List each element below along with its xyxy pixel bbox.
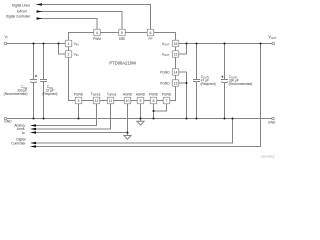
- svg-text:1: 1: [68, 42, 70, 46]
- svg-text:16: 16: [174, 42, 178, 46]
- svg-text:6: 6: [150, 31, 152, 35]
- wire pin12 TSENSE to controller: [36, 104, 97, 126]
- capacitor CIN2 330uF electrolytic: [33, 44, 35, 80]
- svg-text:to/from: to/from: [17, 9, 28, 13]
- arrowhead FF left: [36, 3, 42, 6]
- capacitor COUT2 330uF electrolytic: [224, 44, 226, 80]
- svg-text:(Required): (Required): [42, 92, 57, 96]
- svg-text:(Recommended): (Recommended): [4, 92, 28, 96]
- pin 15 VOUT: [172, 51, 179, 58]
- svg-text:8: 8: [153, 99, 155, 103]
- svg-text:to: to: [22, 131, 25, 135]
- node: Analog lines to digital controller labels: [11, 124, 26, 146]
- svg-text:AGND: AGND: [123, 93, 133, 97]
- ground AGND symbol under pin9: [137, 121, 144, 125]
- arrowhead PWM right: [37, 17, 43, 20]
- junction dot AGND line: [126, 131, 128, 133]
- svg-text:PTD08A210W: PTD08A210W: [109, 61, 136, 66]
- svg-text:Digital Lines: Digital Lines: [12, 3, 30, 7]
- terminal VI input: [4, 42, 7, 45]
- junction dot pin13 link: [185, 82, 187, 84]
- wire pin11 ISENSE to controller: [36, 104, 111, 129]
- wire pin10 AGND to controller: [36, 104, 128, 133]
- pin 8 PGND: [150, 97, 157, 104]
- pin 11 ISENSE: [107, 97, 114, 104]
- wire pin8 to GND bus: [153, 104, 155, 119]
- arrowhead AGND line: [30, 131, 36, 134]
- svg-text:(Recommended): (Recommended): [229, 82, 253, 86]
- wire pin9 AGND to bus: [140, 104, 142, 122]
- svg-text:9: 9: [140, 99, 142, 103]
- junction dot pin8 link: [152, 110, 154, 112]
- svg-text:3: 3: [78, 99, 80, 103]
- svg-text:PGND: PGND: [149, 93, 159, 97]
- wire VIN branch to pin 2: [59, 44, 66, 55]
- svg-text:(Required): (Required): [201, 82, 216, 86]
- wire pin15 to VOUT rail: [179, 44, 187, 55]
- svg-text:7: 7: [166, 99, 168, 103]
- pin 14 PGND: [172, 69, 179, 76]
- wire PWM line from controller: [37, 19, 98, 30]
- terminal GND right: [272, 117, 275, 120]
- pin 9 AGND: [137, 97, 144, 104]
- pin 7 PGND: [163, 97, 170, 104]
- svg-text:PGND: PGND: [74, 93, 84, 97]
- arrowhead SRE right: [37, 10, 43, 13]
- wire pin3 to GND bus: [78, 104, 80, 119]
- pin 2 VIN: [65, 51, 72, 58]
- terminal VOUT: [272, 42, 275, 45]
- pin 10 AGND: [124, 97, 131, 104]
- wire VIN rail: [7, 43, 65, 45]
- arrowhead GND sense: [30, 142, 36, 145]
- junction dots VOUT rail: [185, 42, 187, 44]
- wire GND bus: [7, 118, 272, 120]
- svg-text:PWM: PWM: [93, 37, 101, 41]
- svg-text:10: 10: [126, 99, 130, 103]
- wire pin14 pin13 to GND bus: [179, 72, 187, 119]
- pin 16 VOUT: [172, 40, 179, 47]
- svg-text:2: 2: [68, 52, 70, 56]
- junction dots GND bus: [32, 117, 34, 119]
- pin 3 PGND: [75, 97, 82, 104]
- terminal GND left: [4, 117, 7, 120]
- svg-text:15: 15: [174, 52, 178, 56]
- svg-text:AGND: AGND: [136, 93, 146, 97]
- wire FF line to controller: [37, 5, 151, 30]
- arrowhead TSENSE: [30, 124, 36, 127]
- svg-text:SRE: SRE: [119, 37, 126, 41]
- capacitor COUT1 47uF: [196, 44, 198, 80]
- pin 12 TSENSE: [93, 97, 100, 104]
- svg-text:GND: GND: [4, 119, 12, 123]
- wire pin7 to pin8 link: [154, 104, 167, 111]
- pin 5 SRE: [119, 29, 126, 36]
- svg-text:14: 14: [174, 70, 178, 74]
- arrowhead VOUT sense: [30, 145, 36, 148]
- svg-text:TSENSE: TSENSE: [90, 92, 101, 97]
- module U1 PTD08A210W body: [69, 33, 176, 101]
- svg-text:PGND: PGND: [160, 70, 170, 74]
- arrowhead ISENSE: [30, 128, 36, 131]
- capacitor CIN1 22uF: [43, 44, 45, 80]
- svg-text:ISENSE: ISENSE: [107, 92, 116, 97]
- wire VOUT rail: [179, 43, 272, 45]
- svg-text:12: 12: [95, 99, 99, 103]
- svg-text:4: 4: [96, 31, 98, 35]
- svg-text:FF: FF: [149, 37, 153, 41]
- svg-text:Controller: Controller: [11, 141, 26, 145]
- svg-text:5: 5: [121, 31, 123, 35]
- node: Digital Lines to/from Digital Controller labels: [6, 3, 31, 18]
- svg-text:Digital Controller: Digital Controller: [6, 15, 31, 19]
- svg-text:PGND: PGND: [160, 81, 170, 85]
- svg-text:13: 13: [174, 81, 178, 85]
- svg-text:11: 11: [109, 99, 113, 103]
- svg-text:UDG-09022: UDG-09022: [261, 154, 275, 158]
- wire VOUT sense to controller: [36, 44, 261, 147]
- pin 4 PWM: [94, 29, 101, 36]
- pin 6 FF: [147, 29, 154, 36]
- wire GND sense to controller: [36, 119, 233, 144]
- svg-text:PGND: PGND: [162, 93, 172, 97]
- svg-text:GND: GND: [268, 121, 276, 125]
- wire SRE line from controller: [37, 12, 123, 30]
- pin 13 PGND: [172, 80, 179, 87]
- ground AGND symbol under pin10: [127, 133, 129, 136]
- pin 1 VIN: [65, 40, 72, 47]
- junction dots VIN rail: [32, 42, 34, 44]
